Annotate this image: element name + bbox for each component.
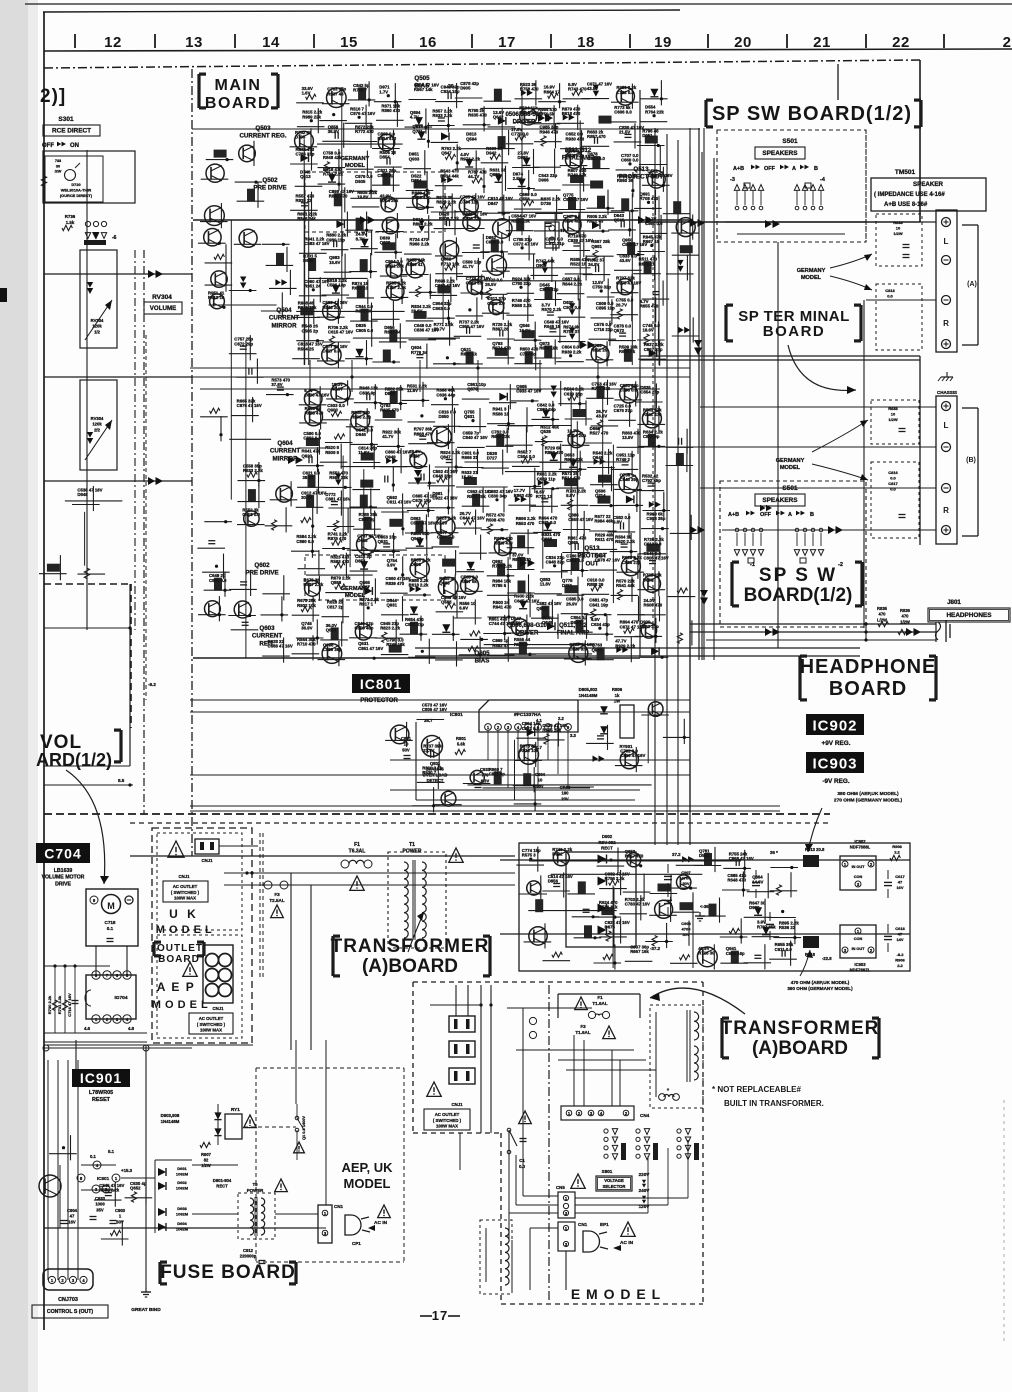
- svg-text:R908: R908: [892, 844, 902, 849]
- svg-text:C644 47 16V: C644 47 16V: [460, 516, 485, 521]
- svg-text:* NOT REPLACEABLE#: * NOT REPLACEABLE#: [712, 1085, 801, 1094]
- svg-text:/2W: /2W: [55, 170, 62, 174]
- svg-text:SPEAKERS: SPEAKERS: [762, 497, 798, 504]
- svg-text:BOARD(1/2): BOARD(1/2): [744, 585, 853, 606]
- svg-text:C897 9p: C897 9p: [359, 517, 376, 522]
- svg-text:D943: D943: [571, 620, 582, 625]
- svg-text:GERMANY: GERMANY: [341, 156, 370, 162]
- svg-text:0.0: 0.0: [890, 487, 896, 492]
- svg-text:C611 0.0: C611 0.0: [775, 947, 793, 952]
- svg-text:C986 0.0: C986 0.0: [486, 239, 504, 244]
- svg-text:0.1: 0.1: [90, 1154, 96, 1159]
- svg-text:4.8: 4.8: [128, 1026, 135, 1031]
- svg-text:C808 47 16V: C808 47 16V: [644, 556, 669, 561]
- svg-text:L: L: [944, 421, 949, 430]
- svg-text:C856 47 16V: C856 47 16V: [647, 173, 672, 178]
- svg-text:S501: S501: [782, 138, 798, 145]
- svg-text:43.6V: 43.6V: [619, 258, 630, 263]
- svg-text:16: 16: [419, 34, 437, 51]
- svg-text:C876 47 16V: C876 47 16V: [237, 403, 262, 408]
- svg-text:C618: C618: [895, 926, 905, 931]
- svg-text:R548 20: R548 20: [322, 305, 339, 310]
- svg-text:( IMPEDANCE USE 4-16#: ( IMPEDANCE USE 4-16#: [874, 192, 945, 198]
- svg-text:R508 470: R508 470: [486, 517, 505, 522]
- svg-text:20: 20: [734, 34, 752, 51]
- svg-text:19: 19: [654, 34, 672, 51]
- svg-text:R786 2.2k: R786 2.2k: [492, 563, 512, 568]
- svg-text:D901-904: D901-904: [213, 1178, 232, 1183]
- svg-text:T1.6AL: T1.6AL: [575, 1030, 591, 1035]
- svg-text:T9: T9: [252, 1182, 258, 1187]
- svg-text:RECT: RECT: [216, 1184, 228, 1189]
- svg-text:Q931: Q931: [387, 602, 398, 607]
- svg-text:(A): (A): [967, 281, 977, 288]
- svg-text:R823 2.2k: R823 2.2k: [380, 626, 400, 631]
- svg-text:36.9V: 36.9V: [301, 626, 312, 631]
- svg-text:Q847: Q847: [440, 455, 451, 460]
- svg-text:R522 15: R522 15: [570, 262, 587, 267]
- svg-text:Q652: Q652: [130, 1185, 141, 1190]
- svg-text:R976 470: R976 470: [328, 536, 347, 541]
- svg-text:T1.6AL: T1.6AL: [592, 1001, 608, 1006]
- svg-text:R762 7: R762 7: [353, 88, 367, 93]
- svg-text:C714 6p: C714 6p: [520, 351, 537, 356]
- svg-text:36.9V: 36.9V: [328, 129, 339, 134]
- svg-text:A+B: A+B: [728, 512, 739, 518]
- svg-text:R839 470: R839 470: [386, 581, 405, 586]
- svg-text:R731 2.3k: R731 2.3k: [57, 995, 62, 1014]
- svg-text:MODEL: MODEL: [345, 163, 366, 169]
- svg-text:TRANSFORMER: TRANSFORMER: [331, 936, 490, 957]
- svg-text:LB1639: LB1639: [54, 868, 73, 874]
- svg-text:SPEAKERS: SPEAKERS: [762, 150, 798, 157]
- svg-text:37.2: 37.2: [672, 852, 681, 857]
- svg-text:F1: F1: [354, 842, 360, 848]
- svg-text:RCE DIRECT: RCE DIRECT: [52, 128, 91, 135]
- svg-text:TRANSFORMER: TRANSFORMER: [721, 1018, 880, 1039]
- svg-text:23.6V: 23.6V: [411, 309, 422, 314]
- svg-text:C718: C718: [105, 920, 116, 925]
- svg-text:C905 0.0: C905 0.0: [356, 328, 374, 333]
- svg-text:R984 46k: R984 46k: [594, 519, 613, 524]
- svg-text:CON: CON: [854, 937, 863, 941]
- svg-text:R868 470: R868 470: [414, 431, 433, 436]
- svg-text:C836 9p: C836 9p: [359, 390, 376, 395]
- svg-text:D646: D646: [356, 432, 367, 437]
- svg-text:IN OUT: IN OUT: [852, 947, 866, 951]
- svg-text:50V: 50V: [402, 747, 410, 752]
- svg-text:26.5V: 26.5V: [485, 282, 496, 287]
- svg-text:Q572: Q572: [614, 328, 625, 333]
- svg-text:D805,802: D805,802: [579, 687, 598, 692]
- svg-text:R836: R836: [900, 608, 911, 613]
- svg-text:38.6V: 38.6V: [303, 475, 314, 480]
- svg-text:C929 0.0: C929 0.0: [569, 647, 587, 652]
- svg-text:OFF: OFF: [764, 166, 776, 172]
- svg-text:1/2: 1/2: [94, 329, 100, 334]
- svg-text:C501 0.0: C501 0.0: [437, 535, 455, 540]
- svg-text:(A)BOARD: (A)BOARD: [752, 1038, 848, 1059]
- svg-text:RV304: RV304: [91, 318, 104, 323]
- svg-text:D699: D699: [411, 562, 422, 567]
- svg-text:35V: 35V: [96, 1207, 104, 1212]
- svg-text:C782 0.0: C782 0.0: [616, 90, 634, 95]
- svg-text:C636 47 16V: C636 47 16V: [304, 392, 329, 397]
- svg-text:R869 41: R869 41: [406, 262, 423, 267]
- svg-text:5.1: 5.1: [108, 1149, 115, 1154]
- svg-text:D950: D950: [439, 414, 450, 419]
- svg-text:-3: -3: [730, 177, 735, 183]
- svg-text:13: 13: [185, 34, 203, 51]
- svg-text:C596 14p: C596 14p: [327, 283, 346, 288]
- svg-text:D751: D751: [562, 583, 573, 588]
- svg-text:NDF788ZL: NDF788ZL: [850, 968, 871, 973]
- svg-text:MAIN: MAIN: [215, 77, 262, 94]
- svg-text:D604: D604: [177, 1221, 187, 1226]
- svg-text:3.9V: 3.9V: [387, 563, 396, 568]
- svg-text:BOARD: BOARD: [205, 95, 271, 112]
- svg-text:T2.5AL: T2.5AL: [269, 898, 285, 903]
- svg-text:CON: CON: [854, 875, 863, 879]
- svg-text:240V: 240V: [639, 1188, 651, 1193]
- svg-text:MODEL: MODEL: [344, 1176, 391, 1191]
- svg-text:R917 1: R917 1: [359, 602, 373, 607]
- svg-text:R718 30: R718 30: [698, 951, 715, 956]
- svg-text:D856: D856: [548, 879, 559, 884]
- svg-text:8.7V: 8.7V: [356, 236, 365, 241]
- svg-text:4700: 4700: [682, 876, 692, 881]
- svg-text:R894 2.2k: R894 2.2k: [413, 221, 433, 226]
- svg-text:Q604: Q604: [277, 440, 293, 447]
- svg-text:11.0V: 11.0V: [511, 621, 522, 626]
- svg-text:R558 13k: R558 13k: [511, 218, 530, 223]
- svg-text:2.5V: 2.5V: [513, 176, 522, 181]
- svg-text:Q927: Q927: [592, 647, 603, 652]
- svg-text:0.0: 0.0: [890, 476, 896, 481]
- svg-text:F3: F3: [274, 892, 280, 897]
- svg-text:R611 25: R611 25: [591, 347, 608, 352]
- svg-text:Q538: Q538: [540, 429, 551, 434]
- svg-text:C975 47 16V: C975 47 16V: [616, 280, 641, 285]
- svg-text:R907: R907: [201, 1152, 212, 1157]
- svg-text:C851 47 16V: C851 47 16V: [358, 646, 383, 651]
- svg-text:R667 15: R667 15: [643, 239, 660, 244]
- svg-text:Q588: Q588: [441, 599, 452, 604]
- svg-text:470: 470: [902, 614, 910, 619]
- svg-text:C504 0.0: C504 0.0: [517, 454, 535, 459]
- svg-text:45.6V: 45.6V: [332, 387, 343, 392]
- svg-text:D543: D543: [409, 454, 420, 459]
- svg-text:A: A: [792, 166, 796, 172]
- svg-text:D905: D905: [460, 86, 471, 91]
- svg-text:220000p: 220000p: [240, 1254, 257, 1259]
- svg-text:C912: C912: [243, 1248, 254, 1253]
- svg-text:CN1: CN1: [578, 1222, 588, 1227]
- svg-text:IC903: IC903: [812, 755, 857, 772]
- svg-text:R536 22: R536 22: [779, 925, 796, 930]
- svg-text:IG704: IG704: [114, 995, 127, 1001]
- svg-text:RY1: RY1: [231, 1107, 240, 1112]
- svg-text:-9.2: -9.2: [148, 682, 156, 687]
- svg-text:C611 47 16V: C611 47 16V: [387, 500, 412, 505]
- svg-text:Q711: Q711: [412, 129, 423, 134]
- svg-text:Q767: Q767: [359, 585, 370, 590]
- svg-text:C666 16p: C666 16p: [726, 951, 745, 956]
- svg-text:190: 190: [562, 791, 570, 796]
- svg-text:Q605: Q605: [474, 650, 490, 657]
- svg-text:Q505: Q505: [414, 75, 430, 82]
- svg-text:R897 26: R897 26: [492, 327, 509, 332]
- svg-text:Q648: Q648: [593, 455, 604, 460]
- svg-text:R906: R906: [895, 958, 905, 963]
- svg-text:R749 2: R749 2: [616, 457, 630, 462]
- svg-text:390 OHM (GERMANY MODEL): 390 OHM (GERMANY MODEL): [787, 986, 853, 991]
- svg-text:18.6V: 18.6V: [643, 328, 654, 333]
- svg-text:R939 2.2k: R939 2.2k: [562, 349, 582, 354]
- svg-text:E M O D E L: E M O D E L: [571, 1286, 661, 1302]
- svg-text:26.9V: 26.9V: [566, 601, 577, 606]
- svg-text:CNJ1: CNJ1: [202, 858, 214, 863]
- svg-text:+15.3: +15.3: [121, 1168, 133, 1173]
- svg-text:BOARD: BOARD: [158, 954, 200, 965]
- svg-text:(A)BOARD: (A)BOARD: [362, 956, 458, 977]
- svg-text:IC801: IC801: [450, 712, 463, 718]
- svg-text:Q931: Q931: [464, 414, 475, 419]
- svg-text:AEP, UK: AEP, UK: [341, 1160, 393, 1175]
- svg-text:NDF7888L: NDF7888L: [850, 845, 871, 850]
- svg-text:-8.2: -8.2: [897, 952, 905, 957]
- svg-text:R833: R833: [893, 220, 903, 225]
- svg-text:F3: F3: [580, 1024, 586, 1029]
- svg-text:AC OUTLET: AC OUTLET: [173, 884, 198, 889]
- svg-text:R667 16k: R667 16k: [630, 949, 649, 954]
- svg-text:R835: R835: [877, 606, 888, 611]
- svg-text:9.8V: 9.8V: [613, 520, 622, 525]
- svg-text:GERMANY: GERMANY: [776, 458, 805, 464]
- svg-text:18: 18: [577, 34, 595, 51]
- svg-text:C907: C907: [681, 870, 691, 875]
- svg-text:733: 733: [55, 159, 61, 163]
- svg-text:R568 23k: R568 23k: [329, 475, 348, 480]
- svg-text:RSV-002: RSV-002: [598, 840, 616, 845]
- svg-text:R520 2.2k: R520 2.2k: [615, 539, 635, 544]
- svg-text:Q668: Q668: [439, 581, 450, 586]
- svg-text:R530 7: R530 7: [422, 770, 436, 775]
- svg-text:Q602: Q602: [254, 562, 270, 569]
- svg-text:0.0: 0.0: [887, 294, 893, 299]
- svg-text:R612 10: R612 10: [208, 295, 225, 300]
- svg-text:C763 0.0: C763 0.0: [620, 388, 638, 393]
- svg-text:AC IN: AC IN: [374, 1220, 388, 1226]
- svg-text:IC901: IC901: [80, 1070, 122, 1086]
- svg-text:POWER: POWER: [247, 1188, 264, 1193]
- svg-text:4.7V: 4.7V: [410, 115, 419, 120]
- svg-text:C621 0.0: C621 0.0: [522, 726, 540, 731]
- svg-text:R: R: [943, 506, 949, 515]
- svg-text:21: 21: [813, 34, 831, 51]
- svg-text:1062M: 1062M: [176, 1186, 189, 1191]
- svg-text:9.8V: 9.8V: [566, 493, 575, 498]
- svg-text:C805 47 16V: C805 47 16V: [422, 707, 447, 712]
- svg-text:MODEL: MODEL: [780, 465, 801, 471]
- svg-text:B: B: [810, 512, 814, 518]
- svg-text:1/2W: 1/2W: [893, 231, 903, 236]
- svg-text:D980: D980: [749, 905, 760, 910]
- svg-text:R527 470: R527 470: [590, 431, 609, 436]
- svg-text:21.5V: 21.5V: [619, 130, 630, 135]
- svg-text:30: 30: [56, 164, 60, 168]
- svg-text:R966 2.2k: R966 2.2k: [409, 242, 429, 247]
- svg-text:OFF: OFF: [760, 512, 772, 518]
- svg-text:R743 470: R743 470: [568, 86, 587, 91]
- svg-text:R668 7k: R668 7k: [619, 349, 636, 354]
- svg-text:M: M: [107, 901, 115, 911]
- svg-text:R605 470: R605 470: [380, 408, 399, 413]
- svg-text:CURRENT REG.: CURRENT REG.: [239, 133, 286, 140]
- svg-text:1N4148M: 1N4148M: [579, 693, 598, 698]
- svg-text:Q985: Q985: [568, 540, 579, 545]
- svg-text:20V: 20V: [561, 796, 569, 801]
- svg-text:4700: 4700: [682, 927, 692, 932]
- svg-text:D848: D848: [77, 492, 88, 497]
- svg-text:Q1 0.8 1400V: Q1 0.8 1400V: [301, 1116, 306, 1140]
- svg-text:Q868: Q868: [331, 580, 342, 585]
- svg-text:47: 47: [898, 880, 903, 885]
- svg-text:82: 82: [204, 1158, 209, 1163]
- svg-text:S801: S801: [602, 1169, 613, 1174]
- svg-text:R776 34: R776 34: [411, 350, 428, 355]
- svg-text:C504 0.0: C504 0.0: [563, 305, 581, 310]
- svg-text:D720: D720: [71, 182, 80, 187]
- svg-text:1062M: 1062M: [176, 1172, 189, 1177]
- svg-text:C518 0.0: C518 0.0: [242, 512, 260, 517]
- svg-text:470 OHM (AEP,UK MODEL): 470 OHM (AEP,UK MODEL): [791, 980, 850, 985]
- svg-text:R509 9: R509 9: [325, 450, 339, 455]
- svg-text:C615 47 16V: C615 47 16V: [328, 330, 353, 335]
- svg-text:R664 17: R664 17: [544, 89, 561, 94]
- svg-text:D942: D942: [486, 150, 497, 155]
- svg-text:OUTLET: OUTLET: [157, 943, 203, 954]
- svg-text:D987: D987: [518, 155, 529, 160]
- svg-text:1062M: 1062M: [176, 1227, 189, 1232]
- svg-text:2: 2: [1003, 34, 1012, 51]
- svg-text:270 OHM (GERMANY MODEL): 270 OHM (GERMANY MODEL): [834, 797, 903, 803]
- svg-text:( SWITCHED ): ( SWITCHED ): [433, 1118, 462, 1123]
- svg-text:R586 13: R586 13: [493, 411, 510, 416]
- svg-text:L78WR05: L78WR05: [89, 1090, 113, 1096]
- svg-text:R575 3: R575 3: [522, 853, 536, 858]
- svg-text:IC902: IC902: [812, 717, 857, 734]
- svg-text:43.5V: 43.5V: [587, 86, 598, 91]
- svg-text:AC OUTLET: AC OUTLET: [435, 1112, 460, 1117]
- svg-text:44.7V: 44.7V: [468, 174, 479, 179]
- svg-text:MIRROR: MIRROR: [272, 455, 298, 462]
- svg-text:D854: D854: [411, 178, 422, 183]
- svg-text:C903: C903: [115, 1208, 126, 1213]
- svg-text:D992: D992: [552, 851, 563, 856]
- svg-text:R: R: [943, 319, 949, 328]
- svg-text:C783 47 16V: C783 47 16V: [625, 901, 650, 906]
- svg-text:11.8V: 11.8V: [540, 581, 551, 586]
- svg-text:R757 2.2k: R757 2.2k: [386, 285, 406, 290]
- svg-text:Q949: Q949: [385, 454, 396, 459]
- svg-text:2/2: 2/2: [94, 427, 100, 432]
- svg-text:11.6V: 11.6V: [358, 450, 369, 455]
- svg-text:R733 2.2k: R733 2.2k: [323, 172, 343, 177]
- svg-text:1.7V: 1.7V: [379, 89, 388, 94]
- svg-text:R611 470: R611 470: [595, 537, 614, 542]
- svg-text:4.6: 4.6: [84, 1026, 91, 1031]
- svg-text:Q556: Q556: [519, 197, 530, 202]
- svg-text:17: 17: [432, 1308, 448, 1323]
- svg-text:RV304: RV304: [152, 294, 172, 301]
- svg-text:R692 10: R692 10: [352, 286, 369, 291]
- svg-text:13.9V: 13.9V: [622, 435, 633, 440]
- svg-text:C716 47 16V: C716 47 16V: [67, 993, 72, 1017]
- svg-text:C904: C904: [67, 1208, 78, 1213]
- svg-text:FUSE BOARD: FUSE BOARD: [160, 1262, 296, 1283]
- svg-text:S301: S301: [58, 116, 74, 123]
- svg-text:1/2W: 1/2W: [201, 1163, 211, 1168]
- svg-text:100W MAX: 100W MAX: [174, 896, 196, 901]
- svg-text:A+B: A+B: [733, 166, 744, 172]
- svg-text:R973 2.2k: R973 2.2k: [460, 157, 480, 162]
- svg-text:C943 0.0: C943 0.0: [466, 281, 484, 286]
- svg-text:47: 47: [898, 932, 903, 937]
- svg-text:HEADPHONE: HEADPHONE: [800, 656, 937, 678]
- svg-text:M O D E L: M O D E L: [156, 924, 212, 936]
- svg-text:Q699: Q699: [380, 240, 391, 245]
- svg-text:C978 47 16V: C978 47 16V: [595, 558, 620, 563]
- svg-text:Q848: Q848: [542, 620, 553, 625]
- svg-text:T6.3AL: T6.3AL: [349, 849, 366, 855]
- svg-text:30.8V: 30.8V: [436, 520, 447, 525]
- svg-text:F1: F1: [597, 995, 603, 1000]
- svg-text:C976 47 16V: C976 47 16V: [350, 111, 375, 116]
- svg-text:SPEAKER: SPEAKER: [913, 181, 943, 188]
- svg-text:R857 470: R857 470: [587, 134, 606, 139]
- svg-text:BOARD: BOARD: [763, 323, 826, 340]
- svg-text:C593 0.0: C593 0.0: [566, 558, 584, 563]
- svg-text:ARD(1/2): ARD(1/2): [36, 750, 112, 770]
- svg-text:D906: D906: [538, 178, 549, 183]
- svg-text:120k: 120k: [92, 422, 102, 427]
- svg-text:2.2: 2.2: [894, 850, 900, 855]
- svg-text:C816: C816: [888, 470, 898, 475]
- svg-text:CONTROL S (OUT): CONTROL S (OUT): [47, 1309, 94, 1315]
- svg-text:C806 0.0: C806 0.0: [209, 578, 227, 583]
- svg-text:C817: C817: [888, 481, 898, 486]
- svg-text:D802: D802: [385, 391, 396, 396]
- svg-text:R788 37: R788 37: [563, 329, 580, 334]
- svg-text:HEADPHONES: HEADPHONES: [946, 612, 992, 619]
- svg-text:32.7V: 32.7V: [434, 327, 445, 332]
- svg-text:5.6k: 5.6k: [457, 742, 466, 747]
- svg-text:D854: D854: [380, 155, 391, 160]
- svg-text:R764 22k: R764 22k: [645, 109, 664, 114]
- svg-text:16.0V: 16.0V: [519, 328, 530, 333]
- svg-text:BIAS: BIAS: [475, 658, 490, 665]
- svg-text:D903,908: D903,908: [161, 1113, 180, 1118]
- svg-text:AC OUTLET: AC OUTLET: [199, 1016, 224, 1021]
- svg-text:R829 2.2k: R829 2.2k: [436, 200, 456, 205]
- svg-text:C817 2p: C817 2p: [327, 604, 344, 609]
- svg-text:PROTECTOR: PROTECTOR: [360, 698, 398, 704]
- svg-text:D854: D854: [355, 559, 366, 564]
- svg-text:0.1: 0.1: [107, 926, 114, 931]
- svg-text:R670 2.2k: R670 2.2k: [541, 307, 561, 312]
- svg-text:C1: C1: [519, 1158, 525, 1163]
